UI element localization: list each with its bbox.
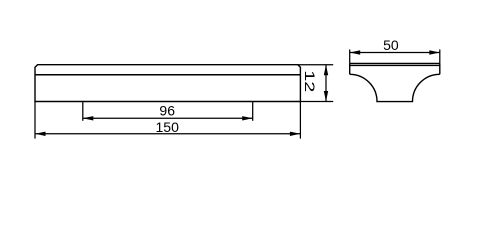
arrow 21 up <box>324 65 328 76</box>
svg-text:150: 150 <box>156 119 180 135</box>
arrow 50 right <box>429 50 440 54</box>
dimension line 21 <box>325 65 327 102</box>
arrow 150 right <box>290 132 301 136</box>
svg-text:12: 12 <box>302 70 318 92</box>
arrow 150 left <box>35 132 46 136</box>
extension line right (150) <box>299 102 301 139</box>
handle side view top plate lower line <box>350 64 440 66</box>
arrow 50 left <box>350 50 361 54</box>
handle front view outline <box>35 65 300 102</box>
arrow 21 down <box>324 91 328 102</box>
dimension line 96 <box>83 117 253 119</box>
svg-text:96: 96 <box>159 103 175 119</box>
extension line right (50) <box>439 50 441 64</box>
dimension line 50 <box>350 52 440 54</box>
dimension line 150 <box>35 133 300 135</box>
arrow 96 left <box>83 116 94 120</box>
front view inner edge line <box>35 74 300 76</box>
extension line left (150) <box>34 102 36 139</box>
handle side view top plate upper line <box>350 62 440 64</box>
extension line left (50) <box>349 50 351 64</box>
extension line right (96) <box>252 102 254 121</box>
arrow 96 right <box>242 116 253 120</box>
side view left edge <box>349 63 351 74</box>
side view body profile with flared curves <box>350 74 440 101</box>
extension line left (96) <box>82 102 84 121</box>
svg-text:50: 50 <box>383 37 399 53</box>
side view right edge <box>439 63 441 74</box>
extension line top (21) <box>298 64 333 66</box>
extension line bottom (21) <box>300 101 333 103</box>
